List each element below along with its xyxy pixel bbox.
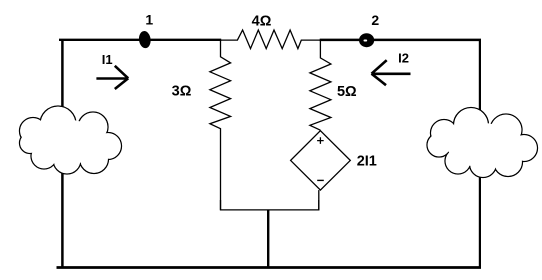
wire left vertical <box>61 40 64 268</box>
svg-text:I1: I1 <box>102 52 113 67</box>
arrow I1 (current direction right) <box>96 66 128 89</box>
wire top-left (node1 net) <box>59 39 221 41</box>
plus sign <box>317 137 324 144</box>
cloud right (network B) <box>427 108 538 178</box>
wire middle vertical (ground stem) <box>267 210 269 268</box>
resistor R 3ohm (left vertical) <box>210 40 231 210</box>
svg-text:2: 2 <box>371 12 379 28</box>
resistor R 5ohm (right vertical) <box>310 40 331 130</box>
wire top-right (node2 net) <box>320 39 481 42</box>
svg-text:I2: I2 <box>398 51 409 66</box>
svg-text:2I1: 2I1 <box>357 154 377 170</box>
wire bottom <box>57 266 482 269</box>
arrow I2 (current direction left) <box>372 60 411 85</box>
svg-text:4Ω: 4Ω <box>252 13 272 29</box>
resistor R 4ohm (top) <box>221 30 321 49</box>
node 2 (terminal blob) <box>359 33 374 47</box>
cloud left (network A) <box>20 106 122 174</box>
dependent source U1 (diamond 2I1) <box>291 131 351 210</box>
wire right vertical <box>479 40 481 268</box>
wire source bottom lead <box>318 190 320 210</box>
node 1 (terminal blob) <box>138 30 152 48</box>
svg-text:5Ω: 5Ω <box>337 84 357 100</box>
svg-text:3Ω: 3Ω <box>172 84 192 100</box>
minus sign <box>317 179 324 181</box>
wire mid horizontal (bottom node) <box>221 200 319 210</box>
svg-text:1: 1 <box>145 12 153 28</box>
